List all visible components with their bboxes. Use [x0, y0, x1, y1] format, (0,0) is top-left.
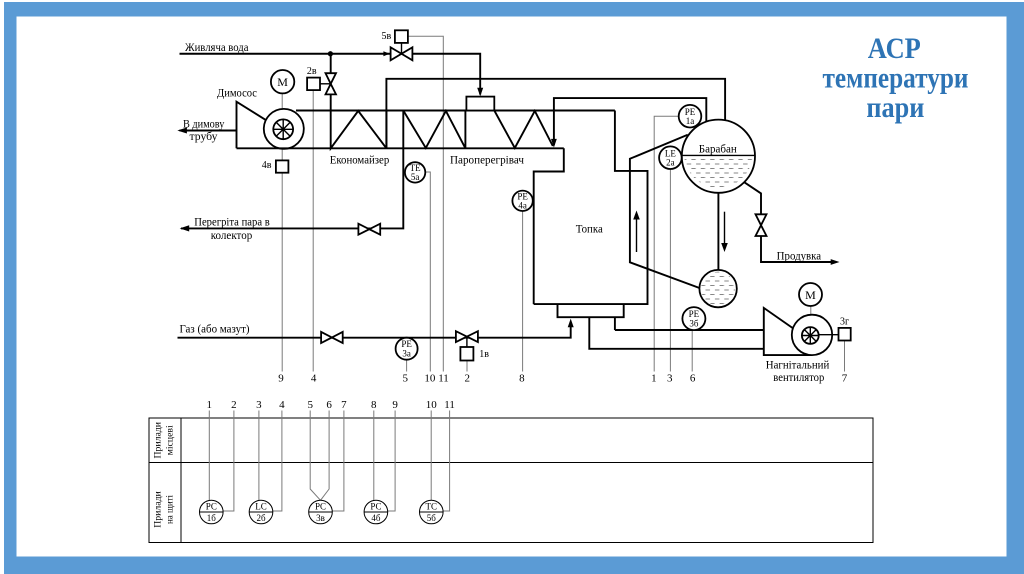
signal line 6 from PE 3b	[691, 330, 693, 372]
panel instrument TC 5б	[420, 500, 444, 524]
label 3г	[840, 316, 849, 327]
label 4в	[262, 160, 272, 171]
table column line 11	[443, 411, 449, 512]
actuator square 1в	[460, 347, 473, 361]
label Газ (або мазут)	[180, 321, 250, 335]
svg-text:5: 5	[307, 399, 313, 411]
svg-text:3а: 3а	[402, 348, 411, 358]
water down arrow	[721, 212, 728, 252]
superheater coil right bank	[494, 111, 553, 149]
svg-text:3б: 3б	[689, 318, 699, 328]
actuator square 5в	[395, 30, 408, 43]
svg-text:на щиті: на щиті	[165, 495, 175, 524]
panel instrument PC 4б	[364, 500, 388, 524]
downcomer duct left wall	[630, 135, 700, 288]
svg-text:Барабан: Барабан	[699, 141, 738, 155]
label 2в	[307, 66, 317, 77]
label 1в	[479, 349, 489, 360]
svg-text:9: 9	[278, 373, 284, 385]
svg-text:Перегріта пара в: Перегріта пара в	[194, 215, 270, 229]
signal line 1 from PE 1a	[654, 116, 678, 371]
panel instrument LC 2б	[249, 500, 273, 524]
svg-text:3: 3	[667, 373, 673, 385]
svg-text:4а: 4а	[518, 200, 527, 210]
label Продувка	[777, 248, 822, 262]
svg-text:Прилади: Прилади	[153, 491, 163, 528]
svg-text:3в: 3в	[316, 513, 325, 523]
svg-text:Пароперегрівач: Пароперегрівач	[450, 152, 524, 166]
motor M2 circle	[799, 283, 822, 306]
svg-text:місцеві: місцеві	[165, 425, 175, 456]
PE 3b instrument	[682, 307, 705, 330]
steam line valve	[358, 224, 380, 235]
table column line 7	[332, 411, 344, 512]
svg-text:3г: 3г	[840, 316, 849, 327]
signal line 9 from actuator 4в	[281, 173, 283, 372]
motor M1 circle	[271, 70, 294, 93]
svg-text:8: 8	[371, 399, 377, 411]
svg-text:АСР: АСР	[868, 32, 921, 65]
signal line 5 from PE 3a	[406, 360, 408, 372]
actuator square 4в	[276, 160, 289, 172]
svg-text:5: 5	[403, 373, 409, 385]
label В димову трубу	[183, 117, 225, 144]
signal line 4 from actuator 2в	[312, 90, 314, 371]
svg-text:8: 8	[519, 373, 525, 385]
svg-text:11: 11	[444, 399, 455, 411]
label 5в	[382, 31, 392, 42]
feed branch pipe to economizer through valve 2в	[330, 54, 332, 111]
svg-text:4: 4	[279, 399, 285, 411]
burner box below furnace	[558, 304, 624, 317]
svg-text:Газ (або мазут): Газ (або мазут)	[180, 321, 250, 335]
table column line 9	[388, 411, 395, 512]
svg-text:6: 6	[326, 399, 332, 411]
svg-text:ТС: ТС	[426, 502, 438, 512]
PE 3a instrument	[396, 338, 418, 360]
gas pipe (Газ або мазут)	[178, 319, 574, 338]
furnace box Топка	[534, 111, 648, 305]
arrow into attemperator	[477, 88, 483, 97]
downcomer pipe drum to lower drum	[717, 193, 719, 271]
windbox line to blower	[615, 329, 764, 331]
valve 2в (vertical)	[320, 73, 336, 94]
label Нагнітальний вентилятор	[766, 357, 830, 384]
svg-text:10: 10	[424, 373, 436, 385]
svg-text:1: 1	[207, 399, 213, 411]
label Топка	[576, 222, 604, 236]
svg-text:трубу: трубу	[190, 129, 218, 143]
svg-text:LС: LС	[255, 502, 267, 512]
table frame	[149, 418, 873, 543]
dymosos fan circle	[264, 109, 304, 149]
svg-text:М: М	[277, 75, 288, 89]
panel instrument PC 1б	[200, 500, 224, 524]
svg-text:1: 1	[651, 373, 657, 385]
svg-text:11: 11	[438, 373, 449, 385]
superheater coil left bank	[403, 111, 465, 149]
lower drum	[699, 270, 736, 307]
signal line 2 from actuator 1в	[466, 361, 468, 372]
signal line 10 from TE 5a	[425, 172, 430, 372]
table column line 8	[373, 411, 375, 501]
label Димосос	[217, 86, 257, 100]
table column line 2	[223, 411, 234, 512]
table header Прилади місцеві (rotated)	[153, 422, 175, 459]
svg-text:Димосос: Димосос	[217, 86, 257, 100]
control valve 5в on feed line	[391, 43, 413, 60]
table column line 1	[208, 411, 210, 501]
svg-text:10: 10	[426, 399, 438, 411]
drum (Барабан)	[682, 120, 755, 193]
svg-text:РС: РС	[315, 502, 326, 512]
economizer coil	[331, 111, 387, 149]
burner to windbox connector	[614, 317, 616, 330]
svg-text:6: 6	[690, 373, 696, 385]
svg-text:2в: 2в	[307, 66, 317, 77]
TE 5a instrument	[405, 162, 425, 182]
blower fan housing	[764, 308, 812, 355]
flue duct bottom line	[237, 147, 564, 149]
panel instrument PC 3в	[309, 500, 333, 524]
title АСР температури пари	[823, 32, 969, 124]
signal line 3 from LE 2a	[669, 169, 671, 371]
flow arrow on feed water pipe	[383, 51, 389, 56]
signal line 7 from actuator 3г	[844, 341, 846, 372]
table column line 3	[258, 411, 260, 501]
diagram line numbers	[278, 373, 848, 385]
svg-text:пари: пари	[866, 91, 924, 124]
flue duct top line	[296, 110, 615, 112]
svg-text:Економайзер: Економайзер	[330, 152, 390, 166]
svg-text:колектор: колектор	[211, 228, 253, 242]
superheated steam outlet pipe	[180, 111, 404, 232]
svg-text:Прилади: Прилади	[153, 422, 163, 459]
PE 1a instrument	[679, 105, 702, 128]
blower fan circle	[792, 315, 832, 355]
svg-text:5б: 5б	[427, 513, 437, 523]
table header Прилади на щиті (rotated)	[153, 491, 175, 528]
svg-text:2: 2	[231, 399, 237, 411]
dymosos fan hub with spokes	[273, 119, 293, 139]
svg-text:температури: температури	[823, 62, 969, 95]
table column line 5	[310, 411, 320, 501]
motor shaft line M1 to dymosos fan	[281, 93, 283, 160]
svg-text:9: 9	[392, 399, 398, 411]
LE 2a instrument	[659, 146, 682, 169]
table column line 4	[273, 411, 282, 512]
svg-text:вентилятор: вентилятор	[773, 370, 824, 384]
svg-text:1а: 1а	[686, 116, 695, 126]
svg-text:М: М	[805, 288, 816, 302]
table column line 6	[321, 411, 330, 501]
svg-text:Топка: Топка	[576, 222, 604, 236]
exhaust line В димову трубу	[177, 128, 236, 134]
gas control valve 1в	[456, 331, 478, 347]
lower drum water hatching	[699, 270, 738, 308]
actuator square 2в	[307, 78, 320, 91]
blowdown valve	[756, 214, 767, 236]
drum water hatching	[681, 156, 755, 193]
blowdown pipe (Продувка)	[744, 182, 839, 265]
air duct from blower to burner	[589, 317, 764, 349]
svg-text:5а: 5а	[411, 172, 420, 182]
table column numbers	[207, 399, 455, 411]
svg-text:1в: 1в	[479, 349, 489, 360]
svg-text:5в: 5в	[382, 31, 392, 42]
PE 4a instrument	[512, 191, 532, 211]
actuator square 3г	[839, 328, 851, 341]
svg-text:РС: РС	[370, 502, 381, 512]
drum water level line	[682, 154, 755, 156]
junction node on feed line	[328, 51, 333, 56]
fan to actuator link	[819, 334, 839, 336]
feed water pipe (Живляча вода)	[180, 54, 481, 95]
svg-text:2: 2	[465, 373, 471, 385]
label Барабан	[699, 141, 738, 155]
label Пароперегрівач	[450, 152, 524, 166]
svg-text:Живляча вода: Живляча вода	[185, 40, 249, 54]
attemperator box	[466, 97, 494, 111]
svg-text:2б: 2б	[256, 513, 266, 523]
signal line 11 from actuator 5в	[408, 36, 443, 371]
flue gas up arrow	[633, 211, 640, 253]
saturated steam pipe drum to superheater	[551, 98, 706, 148]
svg-text:РС: РС	[206, 502, 217, 512]
svg-text:3: 3	[256, 399, 262, 411]
svg-text:2а: 2а	[666, 158, 675, 168]
svg-text:1б: 1б	[207, 513, 217, 523]
svg-text:4: 4	[311, 373, 317, 385]
label Економайзер	[330, 152, 390, 166]
svg-text:7: 7	[842, 373, 848, 385]
svg-text:4б: 4б	[371, 513, 381, 523]
economizer outlet pipe to drum	[386, 79, 725, 149]
svg-text:7: 7	[341, 399, 347, 411]
signal line 8 from PE 4a	[522, 211, 524, 371]
dymosos fan housing	[237, 102, 267, 149]
table column line 10	[430, 411, 432, 501]
svg-text:Продувка: Продувка	[777, 248, 822, 262]
label Живляча вода	[185, 40, 249, 54]
blower fan hub with spokes	[802, 327, 819, 344]
svg-text:4в: 4в	[262, 160, 272, 171]
gas shutoff valve	[321, 332, 343, 343]
label Перегріта пара в колектор	[194, 215, 270, 243]
motor shaft line M2 to blower fan	[810, 306, 812, 327]
